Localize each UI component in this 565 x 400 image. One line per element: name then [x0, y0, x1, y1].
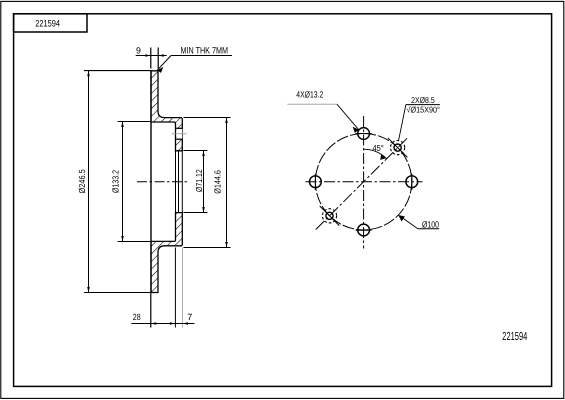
svg-text:9: 9 — [136, 45, 141, 55]
svg-text:Ø133.2: Ø133.2 — [110, 170, 120, 193]
svg-text:2XØ8.5: 2XØ8.5 — [411, 95, 435, 105]
svg-text:Ø100: Ø100 — [422, 219, 439, 229]
svg-text:MIN THK 7MM: MIN THK 7MM — [181, 46, 229, 56]
svg-text:221594: 221594 — [502, 330, 527, 343]
svg-text:7: 7 — [187, 312, 192, 322]
svg-text:Ø71.12: Ø71.12 — [194, 169, 204, 192]
svg-text:45°: 45° — [373, 143, 384, 153]
svg-text:221594: 221594 — [35, 17, 60, 28]
svg-text:4XØ13.2: 4XØ13.2 — [296, 89, 323, 99]
svg-text:√Ø15X90°: √Ø15X90° — [407, 105, 440, 115]
svg-text:Ø246.5: Ø246.5 — [77, 169, 87, 193]
svg-text:28: 28 — [133, 312, 141, 322]
svg-text:Ø144.6: Ø144.6 — [212, 170, 222, 194]
